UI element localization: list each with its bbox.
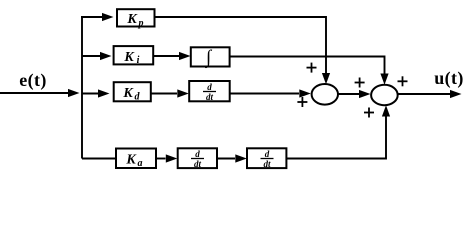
svg-text:K: K: [123, 50, 135, 65]
svg-text:dt: dt: [206, 92, 214, 102]
plus sign at junction1 top input: [307, 63, 317, 73]
wire integrator output to summing junction 2: [230, 57, 385, 75]
wire branch to Ka: [82, 158, 117, 160]
svg-text:d: d: [265, 149, 270, 159]
wire branch to Ki: [82, 55, 102, 57]
svg-text:dt: dt: [263, 159, 271, 169]
svg-text:p: p: [138, 18, 144, 29]
svg-text:K: K: [122, 86, 134, 101]
svg-text:dt: dt: [194, 159, 202, 169]
svg-text:i: i: [137, 55, 140, 66]
wire branch to Kp: [81, 16, 103, 18]
block d/dt derivative row4 second: [247, 148, 286, 168]
summing junction 1: [312, 84, 338, 105]
block Ka: [116, 149, 156, 169]
wire Ka to d/dt 1: [156, 158, 166, 160]
block integrator: [191, 47, 230, 66]
wire branch to Kd: [82, 93, 102, 95]
block d/dt derivative row4 first: [178, 148, 217, 168]
wire d/dt row3 output to summing junction 1: [230, 93, 299, 95]
wire input e(t) horizontal: [0, 92, 70, 94]
wire Kp output to summing junction 1: [155, 17, 327, 74]
plus sign at junction2 top input: [398, 76, 408, 86]
svg-text:K: K: [125, 153, 137, 168]
wire Ki to integrator: [153, 55, 179, 57]
summing junction 2: [371, 85, 398, 105]
plus sign at junction2 bottom input: [364, 108, 374, 118]
svg-text:K: K: [126, 12, 138, 27]
svg-text:u(t): u(t): [434, 68, 464, 89]
wire Kd to d/dt: [151, 93, 177, 95]
block d/dt derivative row3: [189, 81, 230, 101]
block Kp: [117, 9, 155, 26]
wire summing junction 1 to summing junction 2: [338, 93, 359, 95]
block Ki: [114, 46, 154, 64]
plus sign at junction2 left input: [355, 78, 365, 88]
wire d/dt row4 output to summing junction 2 bottom: [286, 115, 386, 159]
svg-text:a: a: [138, 158, 143, 169]
svg-text:d: d: [195, 149, 200, 159]
wire trunk vertical branch line: [81, 16, 83, 158]
plus sign at junction1 left input: [297, 97, 307, 107]
wire output to u(t): [398, 93, 450, 95]
svg-text:d: d: [207, 82, 212, 92]
block Kd: [114, 82, 151, 101]
wire d/dt1 to d/dt2: [217, 158, 235, 160]
svg-text:e(t): e(t): [19, 70, 47, 91]
